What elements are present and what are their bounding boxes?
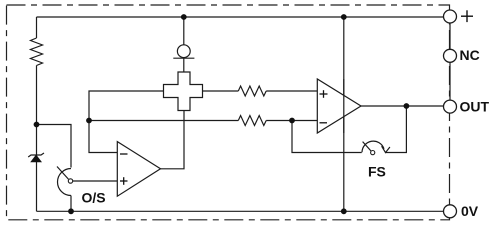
svg-text:O/S: O/S (82, 190, 106, 206)
svg-text:0V: 0V (461, 203, 479, 219)
svg-text:OUT: OUT (460, 99, 490, 115)
svg-text:NC: NC (460, 47, 480, 63)
svg-text:FS: FS (368, 163, 386, 179)
